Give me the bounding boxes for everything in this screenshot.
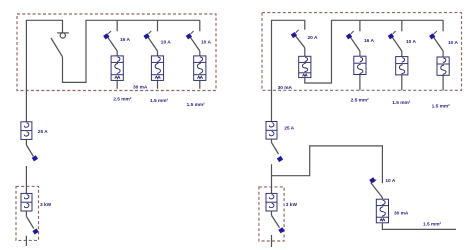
wire below 3kW left (25, 211, 27, 216)
breaker device branch 2 right (396, 57, 408, 75)
RCD 30mA main right (device) (299, 56, 311, 77)
wire stub branch 3 board 3 (442, 20, 444, 31)
wire end left (25, 236, 27, 246)
svg-text:10 A: 10 A (406, 39, 416, 45)
wire below 25A right (271, 139, 273, 143)
wire to RCD bottom (381, 198, 383, 200)
MCB 16A right (blade) (348, 31, 360, 51)
MCB 10A right b2 (blade) (390, 31, 402, 51)
load enclosure 4 (dashed, 3 kW right) (259, 187, 284, 241)
svg-text:1.5 mm²: 1.5 mm² (150, 98, 169, 104)
wire to load box left (25, 166, 27, 193)
wire to device branch 1 right (359, 51, 361, 56)
wire below branch 3 right (442, 75, 444, 90)
disconnect flag right main (277, 156, 283, 162)
svg-text:1.5 mm²: 1.5 mm² (187, 102, 206, 108)
wire stub branch 1 board 1 (116, 20, 118, 31)
wire from RCD to bus 2 right (305, 20, 443, 83)
svg-text:2.5 mm²: 2.5 mm² (113, 97, 132, 103)
load switch blade left (26, 216, 33, 228)
wire below RCD branch 3 (199, 80, 201, 88)
disconnect blade right main (272, 143, 279, 154)
main switch S1 blade (51, 38, 63, 57)
distribution board enclosure 1 (dashed) (17, 14, 216, 91)
RCD 30mA bottom (device) (376, 199, 388, 223)
wire to RCD branch 1 (116, 51, 118, 56)
MCB 10A branch 3 (blade) (188, 31, 200, 51)
disconnect blade left main (26, 145, 33, 156)
wire Z-route to 10A kitchen branch (272, 146, 383, 183)
breaker 25A left (device body) (21, 122, 32, 140)
load enclosure 2 (dashed, 3 kW) (16, 186, 39, 240)
MCB 10A branch 2 (blade) (146, 31, 158, 51)
wire below RCD branch 1 (116, 80, 118, 88)
svg-text:2.5 mm²: 2.5 mm² (351, 98, 370, 104)
svg-text:16 A: 16 A (364, 38, 374, 44)
svg-text:16 A: 16 A (120, 37, 130, 43)
wire to RCD 20A (304, 48, 306, 57)
wire below branch 1 right (359, 75, 361, 91)
load switch blade right (272, 215, 280, 227)
wire below 25A left (25, 139, 27, 145)
MCB 10A right b3 (blade) (432, 31, 444, 51)
load switch flag right (278, 227, 284, 233)
wire loop from switch to bus of board 1 (63, 20, 200, 82)
MCB 16A branch 1 (flag) (103, 33, 109, 39)
main switch S1 (contact circle) (57, 33, 69, 38)
breaker device branch 1 right (354, 56, 366, 74)
RCD device branch 3 (194, 56, 206, 81)
wire below branch 2 right (401, 75, 403, 90)
wire end right (271, 235, 273, 247)
disconnect flag left main (32, 155, 38, 161)
svg-text:10 A: 10 A (385, 178, 395, 184)
breaker 25A right (device body) (266, 122, 277, 140)
MCB 10A right b2 (flag) (388, 33, 394, 39)
distribution board enclosure 3 (dashed) (262, 13, 462, 91)
RCD device branch 2 (151, 56, 163, 81)
wire stub branch 3 board 1 (199, 20, 201, 31)
svg-text:30 mA: 30 mA (394, 210, 409, 216)
svg-text:10 A: 10 A (161, 39, 171, 45)
svg-text:10 A: 10 A (201, 40, 211, 46)
load device 3kW left (body) (21, 193, 32, 211)
MCB 10A branch 2 (flag) (143, 33, 149, 39)
MCB 16A right (flag) (346, 33, 352, 39)
MCB 16A branch 1 (blade) (106, 31, 118, 51)
load device 3kW right (body) (266, 193, 277, 211)
wire outgoing bottom right (382, 223, 456, 230)
MCB 10A bottom (blade) (371, 180, 383, 198)
load switch flag left (32, 228, 38, 234)
svg-text:3 kW: 3 kW (286, 202, 298, 208)
wire to RCD branch 3 (199, 51, 201, 56)
wire to device branch 2 right (401, 51, 403, 57)
svg-text:3 kW: 3 kW (40, 202, 52, 208)
incoming feeder wire (left riser + bus to switch) (26, 20, 62, 122)
wire stub branch 2 board 3 (401, 20, 403, 31)
svg-text:30 mA: 30 mA (278, 85, 293, 91)
MCB 10A branch 3 (flag) (186, 33, 192, 39)
MCB 20A right (blade) (293, 30, 305, 48)
svg-text:1.5 mm²: 1.5 mm² (423, 221, 442, 227)
wire stub branch 2 board 1 (157, 20, 159, 31)
wire below 3kW right (271, 211, 273, 215)
MCB 20A right (flag) (291, 32, 297, 38)
wire to junction right (271, 164, 273, 175)
wire to RCD branch 2 (157, 51, 159, 56)
MCB 10A bottom (flag) (369, 177, 375, 183)
svg-text:25 A: 25 A (38, 129, 48, 135)
RCD device branch 1 (111, 56, 123, 81)
svg-text:25 A: 25 A (284, 125, 294, 131)
svg-text:20 A: 20 A (308, 35, 318, 41)
MCB 10A right b3 (flag) (429, 33, 435, 39)
wire below RCD branch 2 (157, 80, 159, 88)
wire stub branch 1 board 3 (359, 20, 361, 31)
wire to device branch 3 right (442, 51, 444, 57)
breaker device branch 3 right (437, 57, 449, 75)
wire into load box right (271, 176, 273, 194)
incoming feeder wire right (riser + bus to 20A) (272, 20, 305, 121)
svg-text:10 A: 10 A (448, 40, 458, 46)
svg-text:30 mA: 30 mA (133, 85, 148, 91)
svg-text:1.5 mm²: 1.5 mm² (392, 100, 411, 106)
svg-text:1.5 mm²: 1.5 mm² (432, 103, 451, 109)
